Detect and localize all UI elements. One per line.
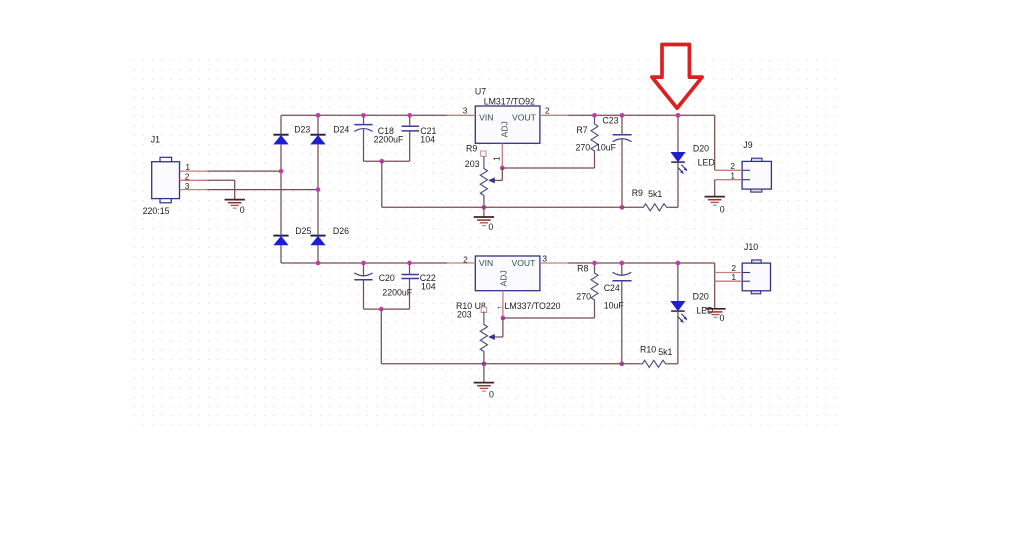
svg-text:D24: D24 [333,125,349,135]
svg-text:D23: D23 [294,125,310,135]
wire bottom rail 2 [381,363,640,365]
wire ground stub 2 [483,364,485,383]
wire to J9 [714,115,716,170]
svg-text:C20: C20 [379,273,395,283]
svg-text:0: 0 [720,205,725,215]
resistor R9 potentiometer [481,151,486,156]
wire C21 leads [409,115,411,126]
J1 pin 3 [180,189,208,191]
wire pot bottom [483,197,485,207]
svg-text:C24: C24 [604,283,620,293]
wire J1.1 to bridge [208,170,282,172]
svg-text:1: 1 [731,272,736,282]
svg-text:R8: R8 [577,263,588,273]
svg-text:3: 3 [185,181,190,191]
diode D24 [310,135,325,144]
J1 pin 2 [180,179,208,181]
wire C20/C22 bottom loop [364,308,410,310]
wire pot bottom 2 [483,353,485,364]
svg-text:104: 104 [420,134,435,144]
op-amp U7 regulator box [475,106,540,143]
node J1.1/D23 junction [279,169,284,174]
node pot/ground junction 2 [482,361,487,366]
svg-text:VOUT: VOUT [512,258,537,268]
red annotation arrow [652,45,702,109]
wire D24 column [317,115,319,134]
wire drop to bottom rail 2 [380,309,382,364]
svg-text:D26: D26 [333,226,349,236]
node D26 bottom [316,261,321,266]
svg-text:0: 0 [240,205,245,215]
svg-text:R9: R9 [466,144,477,154]
capacitor C23 [613,135,632,142]
svg-text:R7: R7 [576,125,587,135]
U7 pin 3 VIN [447,114,475,116]
svg-text:1: 1 [730,171,735,181]
svg-text:R10: R10 [640,344,656,354]
wire C18 leads [363,115,365,124]
svg-text:3: 3 [463,106,468,116]
node C21 top [407,113,412,118]
svg-text:1: 1 [492,156,502,161]
node C18 top [361,113,366,118]
node C23 top [620,113,625,118]
ground 0 at J9 [705,197,725,206]
svg-text:J9: J9 [743,140,752,150]
wire pot wiper [501,168,503,180]
node LED top [676,113,681,118]
J10 pin 2 [715,272,743,274]
svg-text:203: 203 [457,310,472,320]
J9 pin 2 [715,169,742,171]
svg-text:5k1: 5k1 [658,347,672,357]
node D24 top junction [316,113,321,118]
wire C23 leads [621,115,623,135]
svg-text:104: 104 [421,281,436,291]
J1 pin 1 [180,170,208,172]
node C23 bottom [620,205,625,210]
node J1.3/D24 junction [316,187,321,192]
svg-text:ADJ: ADJ [499,270,509,286]
U8 pin 3 VOUT [540,262,568,264]
svg-text:10uF: 10uF [596,142,617,152]
wire R7 leads [594,115,596,122]
node LED top 2 [676,261,681,266]
svg-text:R9: R9 [632,188,643,198]
node loop junction [379,159,384,164]
capacitor C21 [402,126,420,131]
wire C20 leads [363,263,365,276]
svg-text:D20: D20 [693,143,709,153]
U8 pin 2 VIN [447,262,475,264]
svg-text:C23: C23 [602,115,618,125]
resistor R10 potentiometer [481,307,486,312]
svg-text:J10: J10 [744,242,758,252]
ground 0 at R10 [474,383,494,392]
ground 0 at J10 [705,309,725,318]
svg-text:270: 270 [576,142,591,152]
resistor R7 [591,122,598,153]
wire to J10 [714,263,716,281]
svg-text:2: 2 [545,106,550,116]
resistor R10 5k1 [640,360,668,367]
wire neg rail right [568,262,715,264]
wire C22 leads [409,263,411,275]
diode D23 [273,135,288,144]
LED D20 [677,115,679,152]
J10 pin 1 [715,280,743,282]
ground 0 at R9 [474,217,494,226]
wire R8 leads [594,263,596,271]
svg-text:J1: J1 [151,135,160,145]
U8 pin 1 ADJ [502,291,504,318]
diode D25 [273,236,288,245]
wire J1.2 to ground [208,179,235,181]
svg-text:5k1: 5k1 [648,189,662,199]
svg-text:D25: D25 [295,226,311,236]
J1 connector [152,157,180,203]
ground 0 at J1 [225,200,245,209]
wire bottom rail [382,206,641,208]
resistor R8 [591,271,598,302]
op-amp U8 regulator box [475,256,540,291]
connector J10 [742,260,770,294]
wire midrail ADJ to R7 [502,167,594,169]
node ADJ junction [500,166,505,171]
wire top rail right [568,114,715,116]
node loop junction 2 [379,307,384,312]
svg-text:2200uF: 2200uF [382,287,412,297]
wire pot wiper 2 [502,318,504,337]
wire D25 column to neg rail [280,245,282,263]
svg-text:0: 0 [720,313,725,323]
svg-text:0: 0 [489,389,494,399]
svg-text:LM317/TO92: LM317/TO92 [484,96,535,106]
svg-text:2: 2 [463,254,468,264]
node R7 top [592,113,597,118]
svg-text:VIN: VIN [479,113,493,123]
wire C24 leads [621,263,623,275]
node C20 top [361,261,366,266]
U7 pin 1 ADJ [501,143,503,168]
capacitor C24 [612,272,631,281]
node C24 bottom [619,361,624,366]
wire midrail ADJ to R8 [503,317,595,319]
wire D26 column to neg rail [317,245,319,263]
LED D20 bottom [677,263,679,301]
wire C18/C21 bottom loop [364,160,410,162]
wire J9.1 to ground [714,180,716,197]
svg-text:D20: D20 [693,291,709,301]
wire D23 column [280,115,282,134]
connector J9 [742,158,771,192]
svg-text:VOUT: VOUT [512,112,537,122]
pot wiper arrow 2 [488,334,495,340]
wire ground stub [483,207,485,217]
svg-text:U7: U7 [475,87,486,97]
wire neg rail left [281,262,447,264]
capacitor C18 [354,125,372,132]
svg-text:←LM337/TO220: ←LM337/TO220 [496,301,561,311]
svg-text:203: 203 [465,159,480,169]
svg-text:3: 3 [542,254,547,264]
svg-text:VIN: VIN [479,258,493,268]
svg-text:LED: LED [696,305,713,315]
svg-text:2200uF: 2200uF [374,134,404,144]
node R8 top [592,261,597,266]
U7 pin 2 VOUT [540,114,568,116]
svg-text:0: 0 [488,222,493,232]
pot wiper arrow [488,177,495,183]
node ADJ junction 2 [501,316,506,321]
svg-text:220:15: 220:15 [143,206,170,216]
wire J1.3 to bridge [208,189,319,191]
node C22 top [407,261,412,266]
node pot/ground junction [482,205,487,210]
resistor R9 5k1 [641,204,669,211]
J9 pin 1 [715,179,742,181]
svg-text:270: 270 [576,291,591,301]
wire top rail left [281,114,447,116]
node C24 top [619,261,624,266]
wire drop to bottom rail [381,161,383,207]
diode D26 [310,236,325,245]
svg-text:LED: LED [698,158,715,168]
svg-text:ADJ: ADJ [500,121,510,137]
capacitor C22 [402,275,420,279]
wire J10.1 to ground [714,281,716,309]
capacitor C20 [354,273,372,280]
